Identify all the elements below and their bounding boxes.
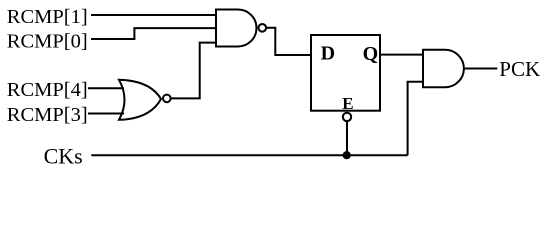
wire CKs horizontal line xyxy=(91,154,407,156)
enable pin bubble xyxy=(343,113,351,121)
NAND gate (3-input) body xyxy=(216,10,257,47)
D latch box U1 xyxy=(311,35,380,111)
NOR gate body xyxy=(119,80,161,120)
svg-text:E: E xyxy=(342,94,353,113)
wire RCMP[3] to NOR input 2 xyxy=(88,113,124,115)
NAND gate output bubble xyxy=(259,24,267,32)
svg-text:RCMP[1]: RCMP[1] xyxy=(7,6,88,28)
svg-text:RCMP[0]: RCMP[0] xyxy=(7,31,88,53)
wire Q output to AND input 1 xyxy=(380,54,423,56)
wire NAND output to D input of latch xyxy=(266,28,311,55)
svg-text:PCK: PCK xyxy=(499,57,540,81)
wire RCMP[4] to NOR input 1 xyxy=(88,87,124,89)
junction dot on CKs line xyxy=(343,151,351,159)
svg-text:D: D xyxy=(321,43,335,65)
svg-text:RCMP[3]: RCMP[3] xyxy=(7,104,88,126)
wire E bubble down to CKs line xyxy=(346,122,348,155)
svg-text:RCMP[4]: RCMP[4] xyxy=(7,79,88,101)
wire RCMP[0] to NAND input 2 (with jog) xyxy=(91,28,216,39)
AND gate body xyxy=(423,50,464,87)
wire NOR output up to NAND input 3 xyxy=(171,43,216,99)
wire RCMP[1] to NAND input 1 xyxy=(91,14,216,16)
svg-text:Q: Q xyxy=(363,43,379,65)
wire CKs up to AND input 2 xyxy=(408,82,423,155)
wire AND output to PCK xyxy=(464,68,497,70)
svg-text:CKs: CKs xyxy=(44,143,83,168)
NOR gate output bubble xyxy=(163,95,171,103)
